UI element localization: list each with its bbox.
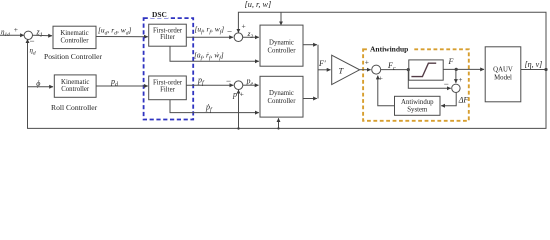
wire: filter2 derivative branch [170,100,259,113]
summer circle 4 [452,84,460,92]
svg-text:Antiwindup: Antiwindup [401,99,434,106]
svg-text:Antiwindup: Antiwindup [370,45,408,54]
wire: top feedback [u,r,w] bus [238,12,546,69]
svg-text:[u, r, w]: [u, r, w] [245,0,272,9]
svg-text:F: F [448,57,454,66]
wire: kinematic1 to filter1 [96,36,148,38]
DSC dashed box [144,18,194,119]
wire: bottom feedback bus [28,39,547,128]
summer circle 1 [24,31,32,39]
summer circle z2 [234,33,243,42]
summer circle 3 [372,65,381,74]
svg-text:Kinematic: Kinematic [60,30,88,37]
svg-text:ṗf: ṗf [205,103,213,114]
svg-text:−: − [30,36,35,46]
wire: kinematic2 to filter2 [96,85,148,87]
svg-text:Controller: Controller [268,47,297,54]
wire: Fc lower path to summer 4 [408,70,450,89]
svg-text:η1d: η1d [1,28,10,38]
svg-text:DSC: DSC [152,10,167,19]
wire: eta_1d input arrow [0,34,24,36]
svg-text:+: + [240,90,244,99]
svg-text:p: p [232,90,237,99]
svg-text:Model: Model [494,74,512,81]
svg-text:Position Controller: Position Controller [44,52,102,61]
svg-text:pe: pe [246,77,254,88]
wire: bus to T gain [318,69,331,71]
gain triangle T [332,55,360,84]
svg-text:QAUV: QAUV [493,66,513,73]
block: Dynamic Controller 1 [260,25,303,66]
summer circle p [234,81,243,90]
svg-text:F′: F′ [318,59,326,68]
svg-text:Fc: Fc [387,61,396,72]
svg-text:Controller: Controller [61,37,90,44]
block: Kinematic Controller 2 [54,75,96,97]
block: Dynamic Controller 2 [260,76,303,117]
block: QAUV Model [485,47,521,102]
wire: summer 3 to saturation [381,69,410,71]
label Antiwindup [368,45,413,54]
svg-text:Dynamic: Dynamic [269,39,294,46]
wire: summer p to dynamic controller 2 [243,84,259,86]
wire: summer 4 to antiwindup system [441,93,456,106]
svg-text:−: − [226,76,231,86]
node: junction on bottom bus [277,127,279,129]
svg-text:[η, v]: [η, v] [525,60,543,69]
node: junction after saturation [455,68,458,71]
svg-text:ηd: ηd [30,47,36,57]
svg-text:Filter: Filter [160,87,175,94]
wire: filter1 to summer z2 [186,36,233,38]
wire: output bus vertical [317,45,319,99]
svg-text:ΔF: ΔF [458,95,469,104]
block: First-order Filter 2 [149,76,187,100]
saturation curve [411,63,436,76]
wire: T gain to summer 3 [360,69,371,71]
svg-text:[u̇f, ṙf, ẇf]: [u̇f, ṙf, ẇf] [194,51,224,62]
svg-text:Kinematic: Kinematic [61,79,89,86]
wire: QAUV output [521,69,546,71]
wire: feedback into dynamic controller 2 bottom [278,118,280,128]
wire: filter2 to summer p [186,84,233,86]
wire: drop into top Dynamic Controller [280,12,282,25]
svg-text:−: − [227,27,232,37]
svg-text:[uf, rf, wf]: [uf, rf, wf] [195,25,225,36]
svg-text:Controller: Controller [268,98,297,105]
svg-text:+: + [458,75,462,84]
svg-text:System: System [407,107,428,114]
svg-text:First-order: First-order [153,80,183,87]
wire: dynamic controller 2 output to bus [303,98,317,100]
svg-text:z2: z2 [247,29,254,40]
wire: phi input arrow [28,86,54,88]
block: Antiwindup System [395,96,441,115]
wire: dynamic controller 1 output to bus [303,44,317,46]
block: Kinematic Controller 1 [53,26,96,48]
svg-text:+: + [242,22,246,31]
block: saturation [409,60,443,80]
wire: antiwindup system output to summer 3 [378,76,395,106]
wire: filter1 derivative branch [170,46,259,61]
svg-text:[ud, rd, wd]: [ud, rd, wd] [98,26,132,37]
svg-text:−: − [444,79,449,89]
svg-text:Filter: Filter [160,34,175,41]
label DSC [151,9,169,19]
svg-text:+: + [14,25,18,34]
node: junction p on bottom bus [237,127,239,129]
svg-text:Controller: Controller [61,86,90,93]
svg-text:z1: z1 [36,27,43,38]
wire: summer z2 to dynamic controller 1 [243,36,259,38]
wire: p feedback from bottom bus into summer p [238,90,240,129]
Antiwindup dashed box [363,49,469,121]
wire: summer1 to kinematic controller 1 [32,34,52,37]
svg-text:+: + [379,74,383,83]
wire: branch down into summer 4 [455,69,457,83]
svg-text:T: T [339,67,345,76]
node: junction output to buses [544,68,547,71]
node: junction before saturation [407,68,410,71]
svg-text:Roll Controller: Roll Controller [51,103,98,112]
svg-text:Dynamic: Dynamic [269,90,294,97]
wire: saturation to QAUV [443,68,484,70]
block: First-order Filter 1 [149,24,187,46]
svg-text:+: + [365,58,369,67]
